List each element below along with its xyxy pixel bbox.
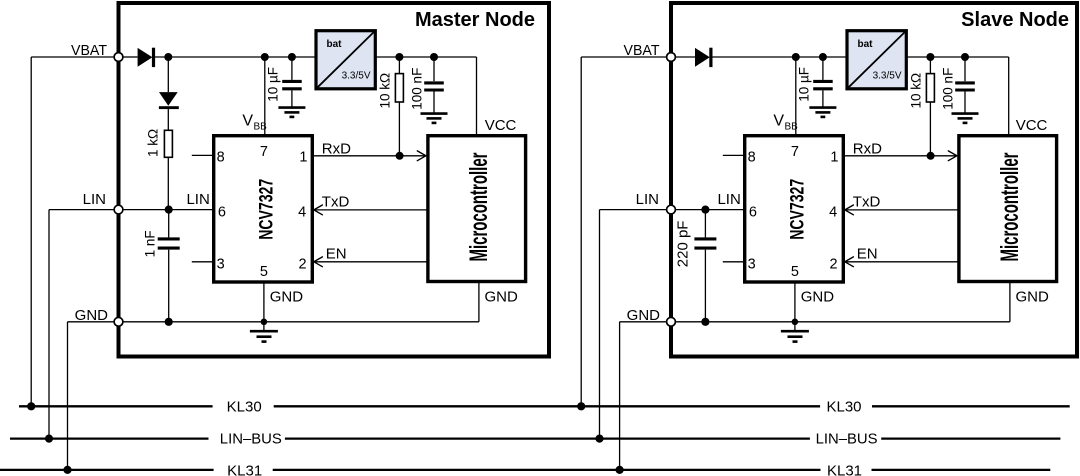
transceiver NCV7327 U1 (master): [214, 136, 313, 282]
resistor 10 kOhm body (slave): [926, 74, 934, 102]
wire resistor 10k to RxD line (slave): [929, 102, 931, 156]
wire to capacitor 10uF (master): [291, 57, 293, 80]
transceiver NCV7327 U1 (slave): [745, 136, 844, 282]
wire LIN terminal to pin 6 (master): [123, 209, 214, 211]
wire GND rail (master): [123, 321, 479, 323]
junction LIN/LIN-BUS (slave): [595, 435, 603, 443]
terminal LIN (master): [114, 205, 123, 214]
wire LIN horizontal to LIN-BUS drop (master): [49, 209, 114, 211]
wire regulator output rail (slave): [906, 56, 1008, 58]
wire LIN junction to capacitor C1 (master): [168, 210, 170, 238]
svg-text:100 nF: 100 nF: [410, 68, 425, 110]
junction GND line / pin5 (slave): [792, 319, 799, 326]
svg-text:8: 8: [748, 150, 756, 166]
EN arrowhead (master): [314, 257, 323, 267]
svg-text:GND: GND: [270, 288, 304, 305]
master node enclosure box: [119, 3, 550, 357]
pin 3 stub (master): [192, 261, 214, 263]
ground symbol under 100nF (slave): [952, 114, 979, 123]
wire to resistor 10k (master): [398, 57, 400, 74]
svg-text:7: 7: [260, 144, 268, 160]
wire RxD pin1 to microcontroller (slave): [843, 155, 957, 157]
svg-text:TxD: TxD: [322, 193, 350, 210]
svg-text:VCC: VCC: [1016, 117, 1048, 134]
svg-text:RxD: RxD: [853, 140, 882, 157]
junction LIN line / 220pF cap (slave): [701, 206, 709, 214]
junction RxD / 10k (slave): [927, 152, 935, 160]
wire diode D2 to resistor (master): [167, 109, 169, 130]
wire capacitor 10uF to ground (master): [291, 90, 293, 106]
svg-text:GND: GND: [1016, 288, 1050, 305]
svg-text:Microcontroller: Microcontroller: [465, 152, 493, 261]
diode D2 vertical (master): [159, 92, 178, 106]
svg-text:LIN: LIN: [83, 191, 106, 208]
capacitor 10uF plates (master): [282, 80, 302, 83]
terminal VBAT (slave): [667, 53, 676, 62]
svg-text:bat: bat: [327, 39, 343, 50]
wire LIN vertical drop to LIN-BUS (slave): [599, 210, 601, 439]
junction VBAT rail / 10uF cap (master): [288, 53, 296, 61]
resistor 10 kOhm body (master): [395, 74, 403, 102]
TxD arrowhead (slave): [845, 205, 854, 215]
terminal LIN (slave): [667, 205, 676, 214]
svg-text:bat: bat: [858, 39, 874, 50]
wire resistor 10k to RxD line (master): [398, 102, 400, 156]
svg-text:4: 4: [829, 204, 837, 220]
junction rail / 10k resistor (slave): [926, 53, 934, 61]
capacitor 10uF plates (slave): [813, 80, 833, 83]
svg-text:EN: EN: [326, 245, 347, 262]
svg-text:BB: BB: [254, 122, 268, 133]
wire VCC rail down to microcontroller (master): [476, 57, 478, 136]
wire to capacitor 10uF (slave): [822, 57, 824, 80]
wire microcontroller GND drop (slave): [1009, 282, 1011, 322]
terminal VBAT (master): [114, 53, 123, 62]
junction GND line / capacitor 220pF (slave): [701, 318, 709, 326]
wire TxD microcontroller to pin4 (slave): [845, 209, 959, 211]
svg-text:KL31: KL31: [827, 463, 862, 476]
wire VBAT terminal to diode anode (slave): [675, 56, 695, 58]
wire LIN junction to capacitor 220pF (slave): [704, 210, 706, 238]
wire TxD microcontroller to pin4 (master): [314, 209, 428, 211]
pin 3 stub (slave): [723, 261, 745, 263]
wire capacitor 220pF to GND line (slave): [704, 250, 706, 322]
svg-text:6: 6: [218, 204, 226, 220]
svg-text:3: 3: [217, 256, 225, 272]
svg-text:8: 8: [217, 150, 225, 166]
wire EN microcontroller to pin2 (master): [314, 261, 428, 263]
capacitor 220pF plates (slave): [694, 237, 716, 240]
bus LIN-BUS line segment 2: [285, 437, 810, 439]
wire VBAT vertical drop to KL30 (master): [30, 57, 32, 406]
wire VBB tap to pin 7 (slave): [795, 57, 797, 136]
svg-text:10 kΩ: 10 kΩ: [378, 73, 393, 109]
svg-text:VBAT: VBAT: [71, 42, 107, 59]
svg-text:10 µF: 10 µF: [266, 67, 281, 102]
svg-text:TxD: TxD: [853, 193, 881, 210]
svg-text:LIN: LIN: [636, 191, 659, 208]
bus KL31 line segment 1: [0, 469, 214, 471]
svg-text:1 nF: 1 nF: [143, 230, 158, 257]
svg-text:LIN–BUS: LIN–BUS: [220, 431, 282, 448]
wire capacitor 10uF to ground (slave): [822, 90, 824, 106]
wire EN microcontroller to pin2 (slave): [845, 261, 959, 263]
wire capacitor C1 to GND line (master): [168, 250, 170, 322]
junction rail / 100nF cap (master): [430, 53, 438, 61]
EN arrowhead (slave): [845, 257, 854, 267]
RxD arrowhead (slave): [948, 151, 957, 161]
microcontroller U2 (slave): [959, 136, 1057, 282]
resistor 1 kOhm body (master): [164, 130, 172, 157]
svg-text:3.3/5V: 3.3/5V: [873, 71, 902, 82]
capacitor 100nF plates (master): [424, 81, 444, 84]
junction VBAT rail / VBB tap (master): [261, 53, 269, 61]
ground symbol under 10uF (master): [278, 108, 305, 117]
junction GND/KL31 (slave): [616, 466, 624, 474]
svg-text:Slave Node: Slave Node: [961, 9, 1069, 31]
svg-text:GND: GND: [801, 288, 835, 305]
bus KL31 line segment 2: [273, 469, 821, 471]
wire chain down to diode D2 (master): [167, 57, 169, 92]
wire GND horizontal to KL31 drop (master): [68, 321, 115, 323]
svg-text:10 µF: 10 µF: [797, 67, 812, 102]
wire LIN horizontal to LIN-BUS drop (slave): [600, 209, 667, 211]
ground symbol under pin5 (slave): [781, 322, 809, 342]
junction LIN/LIN-BUS (master): [45, 435, 53, 443]
wire diode cathode to VBAT rail (master): [155, 56, 316, 58]
wire to resistor 10k (slave): [929, 57, 931, 74]
wire VBAT vertical drop to KL30 (slave): [580, 57, 582, 406]
bus KL30 line segment 2: [274, 405, 820, 407]
junction LIN line / chain+cap (master): [165, 206, 173, 214]
svg-text:6: 6: [749, 204, 757, 220]
ground symbol under 10uF (slave): [809, 108, 836, 117]
svg-text:NCV7327: NCV7327: [256, 179, 278, 240]
svg-text:LIN: LIN: [186, 191, 209, 208]
svg-text:4: 4: [298, 204, 306, 220]
svg-text:1: 1: [299, 150, 307, 166]
junction rail / 10k resistor (master): [395, 53, 403, 61]
svg-text:3.3/5V: 3.3/5V: [342, 71, 371, 82]
svg-text:VCC: VCC: [485, 117, 517, 134]
junction GND line / capacitor C1 (master): [165, 318, 173, 326]
svg-text:2: 2: [299, 256, 307, 272]
wire microcontroller GND drop (master): [478, 282, 480, 322]
RxD arrowhead (master): [417, 151, 426, 161]
pin 8 stub (slave): [723, 154, 745, 156]
junction VBAT rail / VBB tap (slave): [792, 53, 800, 61]
capacitor 100nF plates (slave): [955, 81, 975, 84]
wire RxD pin1 to microcontroller (master): [312, 155, 426, 157]
junction RxD / 10k (master): [396, 152, 404, 160]
wire GND vertical drop to KL31 (slave): [619, 322, 621, 470]
svg-text:100 nF: 100 nF: [941, 68, 956, 110]
svg-text:KL30: KL30: [826, 399, 861, 416]
junction VBAT rail / pull-up chain (master): [164, 53, 172, 61]
wire to capacitor 100nF (slave): [964, 57, 966, 81]
pin 8 stub (master): [192, 154, 214, 156]
wire VCC rail down to microcontroller (slave): [1008, 57, 1010, 136]
wire diode cathode to VBAT rail (slave): [712, 56, 847, 58]
junction GND/KL31 (master): [63, 466, 71, 474]
bus LIN-BUS line segment 1: [10, 437, 209, 439]
slave node enclosure box: [671, 3, 1077, 357]
microcontroller U2 (master): [428, 136, 526, 282]
wire VBB tap to pin 7 (master): [264, 57, 266, 136]
svg-text:2: 2: [830, 256, 838, 272]
svg-text:1 kΩ: 1 kΩ: [146, 129, 161, 157]
wire VBAT terminal to diode anode (master): [123, 56, 138, 58]
svg-text:V: V: [242, 113, 253, 130]
wire to capacitor 100nF (master): [433, 57, 435, 81]
capacitor C1 1 nF plates (master): [158, 237, 180, 240]
svg-text:KL30: KL30: [227, 399, 262, 416]
voltage regulator bat 3.3/5V (master): [316, 31, 375, 89]
svg-text:EN: EN: [857, 245, 878, 262]
svg-text:VBAT: VBAT: [624, 42, 660, 59]
wire pin5 to ground rail (slave): [794, 282, 796, 322]
terminal GND (slave): [667, 317, 676, 326]
diode D1 series reverse-protection (slave): [695, 48, 710, 67]
bus LIN-BUS line segment 3: [881, 437, 1060, 439]
wire LIN vertical drop to LIN-BUS (master): [48, 210, 50, 439]
bus KL30 line segment 3: [872, 405, 1070, 407]
wire pin5 to ground rail (master): [263, 282, 265, 322]
wire GND rail (slave): [675, 321, 1010, 323]
terminal GND (master): [114, 317, 123, 326]
junction rail / 100nF cap (slave): [961, 53, 969, 61]
svg-text:NCV7327: NCV7327: [787, 179, 809, 240]
junction GND line / pin5 (master): [261, 319, 268, 326]
svg-text:3: 3: [748, 256, 756, 272]
svg-text:BB: BB: [785, 122, 799, 133]
svg-text:Microcontroller: Microcontroller: [996, 152, 1024, 261]
svg-text:V: V: [773, 113, 784, 130]
TxD arrowhead (master): [314, 205, 323, 215]
svg-text:220 pF: 220 pF: [675, 221, 692, 268]
svg-text:KL31: KL31: [227, 463, 262, 476]
junction VBAT/KL30 (slave): [577, 402, 585, 410]
bus KL31 line segment 3: [872, 469, 1051, 471]
svg-text:RxD: RxD: [322, 140, 351, 157]
bus KL30 line segment 1: [19, 405, 213, 407]
wire GND horizontal to KL31 drop (slave): [620, 321, 667, 323]
junction VBAT rail / 10uF cap (slave): [819, 53, 827, 61]
svg-text:5: 5: [260, 264, 268, 280]
wire VBAT horizontal to KL30 drop (master): [31, 56, 114, 58]
svg-text:GND: GND: [485, 288, 519, 305]
wire LIN terminal to pin 6 (slave): [675, 209, 744, 211]
ground symbol under 100nF (master): [421, 114, 448, 123]
wire capacitor 100nF to ground (slave): [964, 92, 966, 113]
svg-text:LIN–BUS: LIN–BUS: [816, 431, 878, 448]
wire capacitor 100nF to ground (master): [433, 92, 435, 113]
ground symbol under pin5 (master): [250, 322, 278, 342]
svg-text:1: 1: [830, 150, 838, 166]
wire regulator output rail (master): [375, 56, 476, 58]
voltage regulator bat 3.3/5V (slave): [847, 31, 906, 89]
wire GND vertical drop to KL31 (master): [67, 322, 69, 470]
wire resistor to LIN line (master): [167, 157, 169, 209]
svg-text:5: 5: [791, 264, 799, 280]
svg-text:7: 7: [791, 144, 799, 160]
junction VBAT/KL30 (master): [27, 402, 35, 410]
svg-text:Master Node: Master Node: [415, 9, 535, 31]
svg-text:LIN: LIN: [717, 191, 740, 208]
svg-text:10 kΩ: 10 kΩ: [909, 73, 924, 109]
diode D1 series reverse-protection (master): [138, 48, 153, 67]
wire VBAT horizontal to KL30 drop (slave): [581, 56, 666, 58]
